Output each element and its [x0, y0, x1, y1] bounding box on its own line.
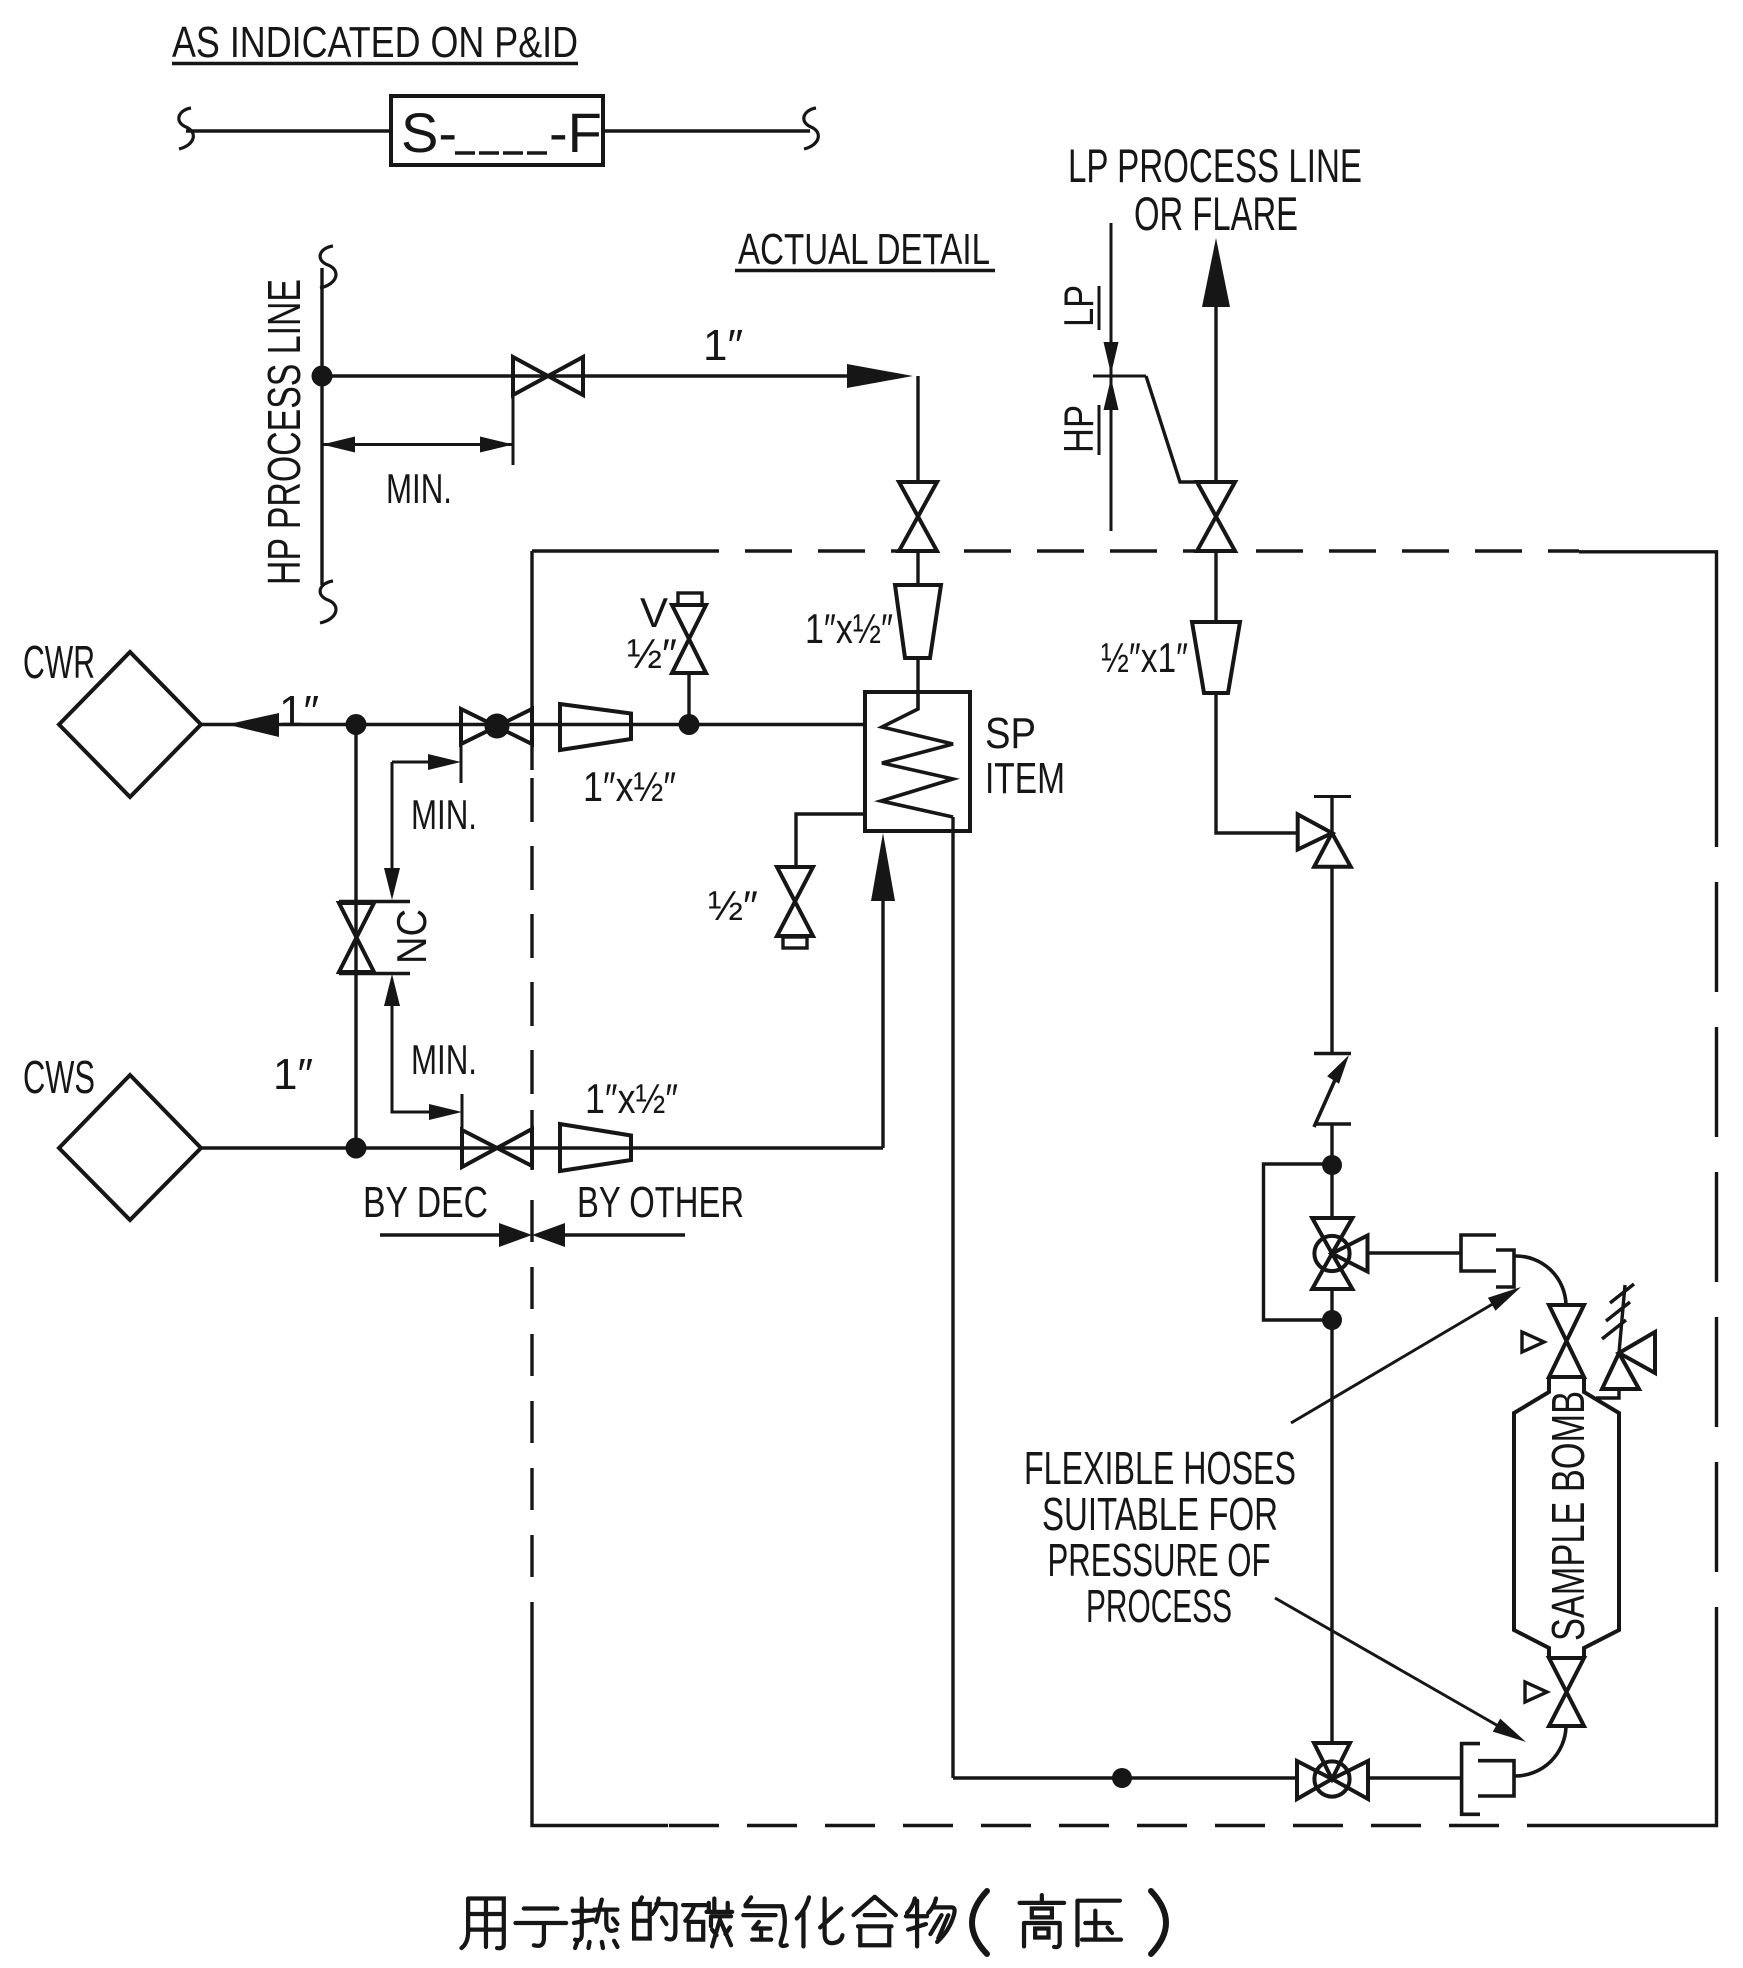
svg-text:AS INDICATED ON P&ID: AS INDICATED ON P&ID: [172, 18, 578, 67]
svg-text:PROCESS: PROCESS: [1086, 1580, 1232, 1632]
svg-text:ITEM: ITEM: [985, 754, 1065, 803]
svg-text:PRESSURE OF: PRESSURE OF: [1048, 1534, 1271, 1586]
svg-text:½″: ½″: [627, 630, 677, 677]
svg-text:MIN.: MIN.: [411, 1036, 477, 1083]
svg-text:OR FLARE: OR FLARE: [1134, 187, 1298, 240]
svg-text:½″x1″: ½″x1″: [1101, 634, 1188, 681]
svg-text:CWR: CWR: [23, 636, 95, 688]
svg-text:CWS: CWS: [23, 1051, 95, 1103]
svg-text:MIN.: MIN.: [386, 465, 452, 512]
svg-text:V: V: [640, 589, 668, 636]
svg-text:1″: 1″: [273, 1050, 313, 1099]
svg-text:LP: LP: [1055, 285, 1102, 327]
svg-text:1″: 1″: [279, 687, 319, 736]
svg-text:LP PROCESS LINE: LP PROCESS LINE: [1068, 139, 1362, 192]
svg-text:ACTUAL DETAIL: ACTUAL DETAIL: [738, 225, 990, 274]
svg-text:BY OTHER: BY OTHER: [577, 1178, 744, 1227]
svg-text:HP PROCESS LINE: HP PROCESS LINE: [258, 279, 310, 585]
svg-text:1″x½″: 1″x½″: [583, 763, 676, 810]
svg-text:MIN.: MIN.: [411, 791, 477, 838]
svg-text:S-: S-: [401, 101, 457, 164]
svg-text:1″x½″: 1″x½″: [805, 605, 893, 652]
svg-text:SAMPLE BOMB: SAMPLE BOMB: [1542, 1391, 1594, 1641]
svg-text:NC: NC: [388, 909, 435, 964]
svg-text:SP: SP: [985, 709, 1036, 758]
svg-text:½″: ½″: [708, 882, 758, 929]
svg-text:SUITABLE FOR: SUITABLE FOR: [1042, 1488, 1278, 1540]
svg-text:FLEXIBLE HOSES: FLEXIBLE HOSES: [1024, 1442, 1296, 1494]
svg-text:1″x½″: 1″x½″: [585, 1075, 678, 1122]
svg-text:-F: -F: [549, 101, 602, 164]
svg-text:1″: 1″: [703, 321, 743, 370]
svg-text:HP: HP: [1055, 405, 1102, 453]
svg-text:BY DEC: BY DEC: [363, 1178, 488, 1227]
